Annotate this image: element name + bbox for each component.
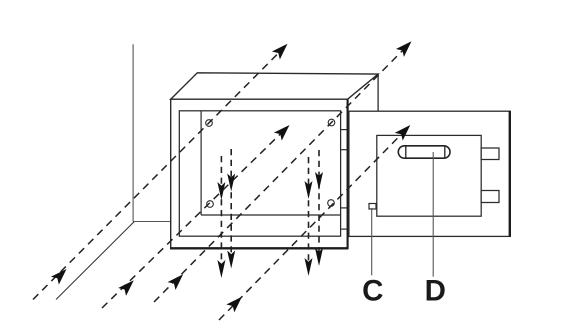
box thick bottom edge bbox=[170, 247, 348, 249]
door thick right edge bbox=[509, 111, 511, 237]
vertical dashed arrow V1 line bbox=[220, 156, 222, 266]
arrow B4 bbox=[226, 293, 246, 313]
latch bolt lower bbox=[481, 191, 499, 203]
screw hole bottom-left bbox=[207, 201, 214, 208]
box right side back edge bbox=[377, 74, 379, 111]
vertical dashed arrow V4 line bbox=[318, 150, 320, 255]
ray R1 dashed bbox=[33, 46, 286, 300]
V1 lower head bbox=[217, 260, 225, 278]
hinge tick 3 bbox=[341, 207, 348, 209]
screw hole top-left bbox=[206, 120, 213, 127]
V4 lower head bbox=[315, 248, 323, 266]
wall floor edge horizontal bbox=[133, 221, 171, 223]
V2 upper head bbox=[227, 174, 235, 192]
svg-text:D: D bbox=[425, 275, 446, 308]
wall vertical edge bbox=[132, 44, 134, 221]
vertical dashed arrow V2 line bbox=[230, 149, 232, 257]
door outer panel bbox=[349, 111, 510, 236]
V3 upper head bbox=[305, 181, 313, 199]
arrow B1 bbox=[51, 265, 71, 285]
svg-text:C: C bbox=[362, 275, 383, 308]
handle left cap line bbox=[405, 146, 407, 158]
screw hole top-right bbox=[328, 119, 335, 126]
hinge tick 1 bbox=[341, 129, 348, 131]
V1 upper head bbox=[217, 182, 225, 200]
door inner recessed panel bbox=[377, 135, 481, 216]
screw hole bottom-right bbox=[328, 200, 335, 207]
V3 lower head bbox=[305, 258, 313, 276]
handle capsule D bbox=[398, 146, 450, 158]
arrow T2 bbox=[396, 37, 416, 57]
hinge tick 4 bbox=[341, 228, 348, 230]
keyhole cover small square C bbox=[369, 204, 376, 210]
interior left wall edge bbox=[200, 111, 202, 215]
leader line to D bbox=[432, 152, 434, 277]
latch bolt upper bbox=[481, 148, 499, 160]
handle right cap line bbox=[444, 146, 446, 158]
box front face outer rect bbox=[171, 99, 348, 248]
interior floor back edge bbox=[201, 214, 341, 216]
V4 upper head bbox=[315, 172, 323, 190]
arrow T1 bbox=[272, 40, 292, 60]
vertical dashed arrow V3 line bbox=[308, 157, 310, 264]
wall floor diagonal bbox=[56, 222, 134, 300]
leader line to C bbox=[371, 208, 373, 275]
ray R4 dashed bbox=[154, 43, 410, 302]
arrow B3 bbox=[168, 270, 188, 290]
arrow M1 bbox=[274, 121, 294, 141]
ray R5 dashed bbox=[219, 128, 408, 321]
arrow M2 bbox=[395, 121, 415, 141]
ray R2 dashed bbox=[102, 128, 287, 309]
box inner opening rect bbox=[179, 111, 340, 236]
box thick right edge bbox=[347, 99, 349, 249]
hinge tick 2 bbox=[341, 149, 348, 151]
arrow B2 bbox=[118, 276, 138, 296]
V2 lower head bbox=[227, 251, 235, 269]
box top face bbox=[171, 73, 378, 99]
